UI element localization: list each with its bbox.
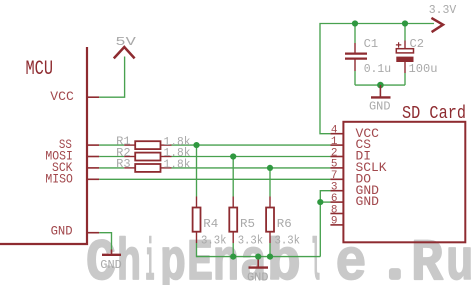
junction dot R5 tap	[230, 153, 236, 159]
wire SS row right	[172, 144, 331, 146]
junction dot C2 top	[402, 20, 408, 26]
MCU pin SCK stub	[87, 167, 99, 169]
resistor R6 body	[266, 208, 274, 232]
resistor R4 body	[193, 208, 201, 232]
junction dot R4 tap	[193, 142, 199, 148]
ground symbol MCU GND stub	[111, 250, 113, 255]
resistor R1 left pin	[124, 144, 135, 146]
wire VCC net to 5V	[99, 57, 124, 98]
svg-text:GND: GND	[369, 100, 391, 113]
svg-text:3: 3	[331, 182, 338, 194]
resistor R6 bottom pin	[269, 232, 271, 243]
svg-text:1: 1	[331, 136, 338, 148]
capacitor C2 plate bottom (filled)	[396, 57, 413, 62]
capacitor C1 top lead	[354, 43, 356, 53]
svg-text:C2: C2	[410, 38, 425, 51]
svg-text:R4: R4	[203, 218, 218, 231]
svg-text:MISO: MISO	[45, 171, 73, 186]
ground symbol cap bar	[371, 96, 391, 98]
resistor R5 bottom pin	[232, 232, 234, 243]
wire MCU GND net	[99, 233, 111, 250]
MCU pin GND stub	[87, 232, 99, 234]
svg-text:GND: GND	[51, 223, 73, 238]
wire pin6 branch	[320, 201, 330, 203]
ground symbol MCU GND bar	[102, 254, 121, 256]
wire bottom GND rail	[197, 256, 321, 258]
wire SS row left	[99, 144, 124, 146]
SD pin 3 stub	[330, 190, 343, 192]
capacitor C2 top lead	[404, 41, 406, 49]
wire R4 to rail	[196, 243, 198, 257]
svg-text:3.3k: 3.3k	[275, 235, 301, 248]
supply symbol 3.3V arrow	[431, 18, 443, 32]
svg-text:8: 8	[331, 204, 338, 216]
resistor R4 bottom pin	[196, 232, 198, 243]
svg-text:l: l	[311, 232, 320, 285]
SD pin 4 stub	[330, 133, 343, 135]
svg-text:4: 4	[331, 125, 338, 137]
SD pin 5 stub	[330, 167, 343, 169]
svg-text:MCU: MCU	[26, 58, 54, 81]
wire R5 drop	[232, 157, 234, 197]
resistor R2 left pin	[124, 156, 135, 158]
resistor R5 body	[229, 208, 237, 232]
capacitor C2 plate top (hollow)	[396, 49, 413, 53]
wire C1 bottom	[354, 71, 356, 85]
junction dot C1 top	[352, 20, 358, 26]
wire capacitor bottom rail	[355, 84, 405, 86]
wire R5 to rail	[232, 243, 234, 257]
svg-text:GND: GND	[356, 194, 380, 209]
SD pin 1 stub	[330, 144, 343, 146]
wire MISO row	[99, 178, 330, 180]
wire SCK row right	[172, 167, 331, 169]
SD pin 9 stub	[330, 224, 343, 226]
MCU pin MOSI stub	[87, 156, 99, 158]
SD pin 8 stub	[330, 213, 343, 215]
svg-text:7: 7	[331, 170, 338, 182]
resistor R3 right pin	[161, 167, 172, 169]
ground symbol cap stub	[379, 85, 381, 97]
capacitor C1 plate top	[345, 52, 367, 54]
junction dot pin6 branch	[317, 199, 323, 205]
svg-text:e: e	[336, 232, 367, 285]
resistor R1 right pin	[161, 144, 172, 146]
svg-text:5: 5	[331, 159, 338, 171]
svg-text:5V: 5V	[115, 35, 137, 49]
wire C1 top	[354, 24, 356, 44]
MCU pin MISO stub	[87, 178, 99, 180]
svg-text:100u: 100u	[409, 63, 438, 76]
wire C2 bottom	[404, 73, 406, 85]
SD card box	[343, 122, 465, 243]
svg-text:VCC: VCC	[50, 89, 74, 104]
junction dot GND tap	[255, 254, 261, 260]
svg-text:i: i	[146, 232, 155, 285]
svg-text:p: p	[160, 232, 186, 285]
wire SCK row left	[99, 167, 124, 169]
svg-text:6: 6	[331, 193, 338, 205]
resistor R2 right pin	[161, 156, 172, 158]
capacitor C1 bottom lead	[354, 59, 356, 71]
svg-text:3.3k: 3.3k	[238, 235, 264, 248]
svg-text:SD Card: SD Card	[402, 104, 466, 124]
capacitor C2 plus sign	[396, 42, 401, 47]
junction dot R6 bottom	[267, 254, 273, 260]
svg-text:3.3k: 3.3k	[201, 235, 227, 248]
wire R6 drop	[269, 168, 271, 197]
SD pin 2 stub	[330, 156, 343, 158]
MCU U? box outline	[0, 47, 87, 244]
ground symbol mid stub	[257, 257, 259, 268]
wire C2 top	[404, 24, 406, 41]
capacitor C2 bottom lead	[404, 62, 406, 73]
SD pin 7 stub	[330, 178, 343, 180]
svg-text:2: 2	[331, 147, 338, 159]
junction dot R6 tap	[267, 165, 273, 171]
wire R6 to rail	[269, 243, 271, 257]
SD pin 6 stub	[330, 201, 343, 203]
wire MOSI row right	[172, 156, 331, 158]
wire GND riser to SD pins	[320, 191, 330, 257]
svg-text:R: R	[411, 232, 443, 285]
wire MOSI row left	[99, 156, 124, 158]
svg-text:9: 9	[331, 216, 338, 228]
svg-text:R3: R3	[116, 158, 131, 171]
resistor R3 body	[135, 164, 160, 172]
svg-text:3.3V: 3.3V	[429, 3, 457, 17]
resistor R6 top pin	[269, 197, 271, 208]
resistor R4 top pin	[196, 197, 198, 208]
wire R4 drop	[196, 145, 198, 196]
svg-text:1.8k: 1.8k	[164, 159, 191, 172]
MCU pin SS stub	[87, 144, 99, 146]
MCU pin VCC stub	[87, 96, 99, 98]
svg-text:R5: R5	[240, 218, 255, 231]
svg-text:GND: GND	[247, 272, 269, 285]
wire VCC riser 3.3V	[320, 24, 434, 134]
supply symbol 5V arrow	[114, 47, 135, 58]
junction dot cap GND tap	[377, 82, 384, 89]
ground symbol mid bar	[249, 266, 269, 268]
svg-text:C1: C1	[364, 38, 379, 51]
junction dot R5 bottom	[230, 254, 236, 260]
svg-text:GND: GND	[100, 259, 122, 272]
resistor R1 body	[135, 141, 160, 149]
resistor R3 left pin	[124, 167, 135, 169]
svg-text:R6: R6	[277, 218, 292, 231]
watermark ChipEnable.Ru	[86, 232, 474, 285]
capacitor C1 plate bottom	[345, 57, 367, 59]
resistor R5 top pin	[232, 197, 234, 208]
resistor R2 body	[135, 153, 160, 161]
svg-text:0.1u: 0.1u	[364, 63, 392, 76]
svg-text:u: u	[446, 232, 474, 285]
